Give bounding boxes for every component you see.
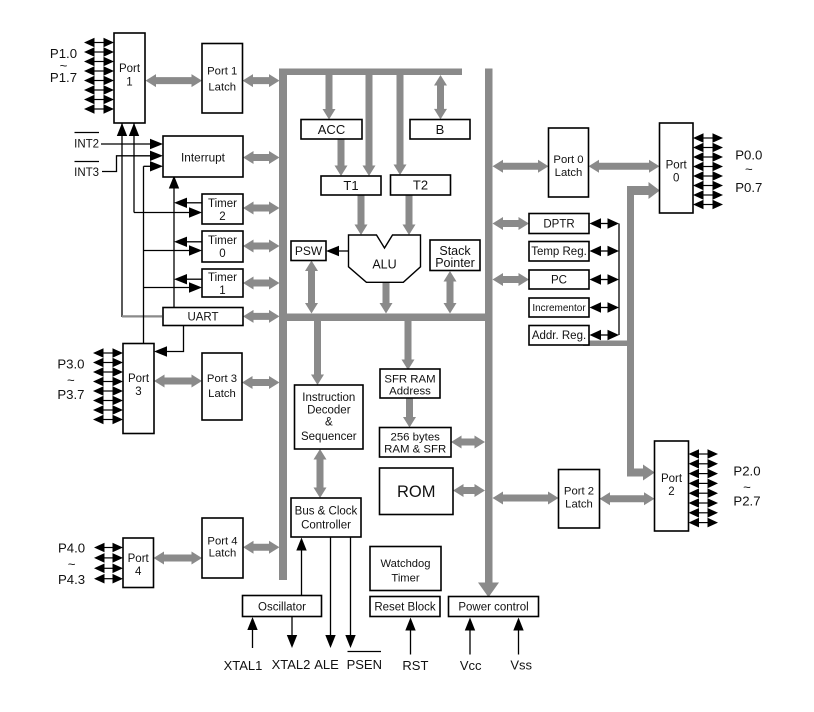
label P2.0 (733, 463, 760, 478)
box Power control (449, 597, 539, 617)
box Port 3 (123, 344, 154, 434)
box T1 (321, 176, 381, 195)
bus middle horizontal bar (279, 314, 493, 322)
arrow Port2Latch-Port2 (600, 492, 655, 505)
svg-text:ROM: ROM (397, 483, 436, 501)
wire RST input (405, 618, 415, 655)
box Timer 1 (202, 269, 243, 297)
box Port 2 (655, 441, 689, 531)
svg-text:ACC: ACC (318, 122, 345, 137)
box ROM (380, 468, 454, 515)
svg-text:Controller: Controller (301, 520, 351, 532)
wire INT2 to Interrupt (101, 139, 163, 149)
arrow T2 to ALU (403, 195, 416, 235)
svg-text:Decoder: Decoder (307, 404, 351, 416)
box Bus & Clock Controller (291, 498, 361, 537)
svg-text:Interrupt: Interrupt (181, 151, 226, 165)
svg-text:B: B (436, 122, 445, 137)
arrow ACC to T1 (335, 139, 348, 176)
svg-text:INT3: INT3 (74, 167, 99, 179)
wire Bus&Clock to ALE (325, 538, 335, 649)
box Instruction Decoder & Sequencer (295, 385, 364, 449)
label ALE (314, 657, 339, 672)
arrow RAM-bus (451, 436, 485, 449)
svg-text:Port: Port (128, 373, 150, 385)
svg-text:Port 0: Port 0 (553, 154, 583, 166)
arrow Port4Latch-bus (243, 541, 280, 554)
arrow bus to T1 (363, 75, 376, 176)
box Temp Reg. (529, 242, 589, 262)
arrow bus to T2 (394, 75, 407, 175)
label ~ (P3) (67, 372, 75, 387)
arrow bus to ACC (323, 75, 336, 120)
svg-text:Temp Reg.: Temp Reg. (531, 246, 587, 258)
arrow Port0Latch-Port0 (589, 160, 660, 173)
svg-text:Power control: Power control (458, 602, 528, 614)
wire Vcc input (465, 618, 475, 655)
wire INT3 to Interrupt (102, 151, 163, 172)
svg-text:Latch: Latch (209, 547, 237, 559)
svg-text:Address: Address (389, 386, 431, 398)
svg-text:T2: T2 (413, 178, 428, 193)
svg-text:ALU: ALU (372, 258, 396, 272)
svg-text:P2.7: P2.7 (733, 493, 760, 508)
ALU unit (349, 235, 421, 282)
box DPTR (529, 214, 589, 234)
label P4.0 (58, 541, 85, 556)
bus address vertical (right) (627, 186, 634, 477)
svg-text:Latch: Latch (555, 167, 583, 179)
arrow bus to Instruction Decoder (311, 321, 324, 385)
svg-text:P1.7: P1.7 (50, 70, 77, 85)
svg-text:~: ~ (68, 556, 76, 571)
box PC (529, 270, 589, 289)
svg-text:Port: Port (666, 160, 688, 172)
label P0.7 (735, 180, 762, 195)
label Vss (510, 658, 532, 673)
wire Vss input (513, 618, 523, 655)
wire XTAL1 input (247, 617, 257, 648)
arrow bus-PC (493, 273, 530, 286)
box T2 (391, 175, 451, 195)
svg-text:1: 1 (219, 285, 225, 297)
svg-text:~: ~ (745, 161, 753, 176)
svg-text:P3.7: P3.7 (57, 387, 84, 402)
svg-text:P3.0: P3.0 (57, 357, 84, 372)
svg-text:Latch: Latch (208, 82, 236, 94)
bus top horizontal bar (279, 69, 462, 76)
svg-text:Vss: Vss (510, 658, 532, 673)
arrow bus to SFR RAM Address (402, 321, 415, 370)
box SFR RAM Address (380, 369, 440, 398)
svg-text:0: 0 (673, 173, 679, 185)
bus address top elbow to Port 0 (627, 182, 660, 199)
box Port 1 (114, 33, 145, 123)
arrow ROM-bus (453, 484, 485, 497)
wire Bus&Clock to PSEN (345, 538, 355, 649)
arrow bus-B double (434, 75, 447, 119)
arrow bus-DPTR (493, 217, 530, 230)
svg-text:256 bytes: 256 bytes (390, 432, 440, 444)
svg-text:Watchdog: Watchdog (381, 558, 431, 570)
svg-text:3: 3 (135, 386, 141, 398)
wire register stack vertical (618, 224, 620, 336)
svg-text:Timer: Timer (391, 572, 419, 584)
box PSW (291, 241, 326, 261)
box Port 4 Latch (202, 518, 243, 578)
arrow Stack Pointer-bus double (444, 271, 457, 314)
box UART (163, 308, 243, 326)
pin arrows P4.0-P4.3 (94, 543, 123, 584)
svg-text:2: 2 (219, 211, 225, 223)
wire Port1 to UART (left riser) (117, 123, 162, 317)
svg-text:Pointer: Pointer (435, 256, 475, 270)
box B (410, 120, 470, 140)
box Port 1 Latch (202, 44, 243, 114)
arrow Port1-Port1Latch (146, 74, 203, 87)
pin arrows P1.0-P1.7 (84, 38, 114, 114)
svg-text:Port 3: Port 3 (207, 373, 237, 385)
box Port 2 Latch (559, 470, 600, 529)
svg-text:4: 4 (135, 566, 142, 578)
svg-text:Port 1: Port 1 (207, 66, 237, 78)
label Vcc (460, 658, 482, 673)
bus main right vertical (478, 69, 499, 598)
wire Oscillator to Bus&Clock (296, 538, 306, 596)
box ACC (301, 120, 362, 140)
pin arrows P2.0-P2.7 (689, 449, 719, 527)
svg-text:P2.0: P2.0 (733, 463, 760, 478)
wire UART to Port3 (154, 326, 184, 357)
box Port 0 (660, 123, 694, 213)
svg-text:Port: Port (661, 473, 683, 485)
box Stack Pointer (430, 240, 480, 271)
svg-text:Bus & Clock: Bus & Clock (295, 506, 358, 518)
svg-text:Port: Port (119, 63, 141, 75)
arrow Port3Latch-bus (242, 376, 280, 389)
svg-text:2: 2 (668, 486, 674, 498)
label ~ (P2) (743, 479, 751, 494)
svg-text:Incrementor: Incrementor (532, 303, 586, 314)
wire Incrementor register double arrow (590, 302, 620, 312)
bus address bottom elbow to Port 2 (627, 465, 655, 481)
box Port 3 Latch (202, 353, 242, 420)
label P0.0 (735, 148, 762, 163)
label RST (402, 658, 428, 673)
svg-text:SFR RAM: SFR RAM (384, 374, 435, 386)
svg-text:PSEN: PSEN (347, 657, 382, 672)
label P4.3 (58, 572, 85, 587)
box Interrupt (163, 136, 243, 177)
svg-text:Port 4: Port 4 (207, 535, 237, 547)
svg-text:PC: PC (551, 275, 567, 287)
bus main left vertical (279, 69, 287, 580)
svg-text:~: ~ (743, 479, 751, 494)
svg-text:Latch: Latch (565, 498, 593, 510)
box Watchdog Timer (370, 547, 441, 591)
svg-text:0: 0 (219, 248, 225, 260)
svg-text:Reset Block: Reset Block (374, 602, 436, 614)
svg-text:P4.3: P4.3 (58, 572, 85, 587)
svg-text:Addr. Reg.: Addr. Reg. (532, 330, 586, 342)
box Timer 0 (202, 231, 243, 262)
label P1.7 (50, 70, 77, 85)
label XTAL1 (224, 658, 263, 673)
svg-text:XTAL1: XTAL1 (224, 658, 263, 673)
arrow T1 to ALU (355, 195, 368, 235)
svg-text:P0.7: P0.7 (735, 180, 762, 195)
wire Addr. Reg. register double arrow (590, 330, 620, 340)
label P2.7 (733, 493, 760, 508)
svg-text:T1: T1 (343, 178, 358, 193)
label ~ (P1) (60, 58, 68, 73)
svg-text:XTAL2: XTAL2 (272, 657, 311, 672)
arrow bus-Port0Latch (493, 160, 549, 173)
wire XTAL2 output (287, 617, 297, 648)
svg-text:ALE: ALE (314, 657, 339, 672)
box 256 bytes RAM & SFR (380, 428, 452, 458)
box Oscillator (243, 596, 322, 617)
svg-text:INT2: INT2 (74, 139, 99, 151)
box Reset Block (370, 597, 440, 617)
arrow ALU to bus (380, 282, 393, 314)
label P3.7 (57, 387, 84, 402)
svg-text:Instruction: Instruction (302, 392, 355, 404)
label ~ (P0) (745, 161, 753, 176)
arrow Timer1-bus (243, 277, 280, 290)
wire DPTR register double arrow (590, 218, 620, 228)
svg-text:Timer: Timer (208, 198, 237, 210)
box Port 4 (123, 538, 154, 588)
wire ALU to PSW (326, 246, 349, 256)
svg-text:UART: UART (187, 312, 218, 324)
box Incrementor (529, 298, 589, 317)
svg-text:RST: RST (402, 658, 428, 673)
svg-text:Port: Port (128, 553, 150, 565)
svg-text:Port 2: Port 2 (564, 485, 594, 497)
svg-text:PSW: PSW (295, 244, 323, 258)
svg-text:DPTR: DPTR (543, 219, 574, 231)
wire Temp Reg. register double arrow (590, 246, 620, 256)
label PSEN with overline (347, 652, 382, 673)
arrow bus-Port2Latch (493, 492, 559, 505)
label P3.0 (57, 357, 84, 372)
svg-text:Timer: Timer (208, 235, 237, 247)
wire Interrupt to UART (timer tap line) (169, 176, 202, 308)
wire Port1 to Timer2 input (129, 123, 202, 218)
svg-text:Timer: Timer (208, 272, 237, 284)
svg-text:Latch: Latch (208, 388, 236, 400)
svg-text:Oscillator: Oscillator (258, 602, 306, 614)
svg-text:Vcc: Vcc (460, 658, 482, 673)
svg-text:P4.0: P4.0 (58, 541, 85, 556)
wire interrupt input riser to Port3 (144, 161, 203, 343)
box Timer 2 (202, 194, 243, 224)
arrow Port4-Port4Latch (154, 552, 203, 565)
arrow Instruction Decoder-Bus&Clock double (314, 449, 327, 498)
pin arrows P3.0-P3.7 (93, 348, 123, 424)
pin arrows P0.0-P0.7 (693, 133, 723, 209)
arrow PSW-bus double (305, 261, 318, 314)
arrow UART-bus (243, 310, 280, 323)
arrow SFR RAM Address to RAM (403, 398, 416, 428)
svg-text:&: & (325, 417, 333, 429)
arrow Timer0-bus (243, 240, 280, 253)
label ~ (P4) (68, 556, 76, 571)
arrow Port1Latch-bus (243, 74, 280, 87)
label INT2 with overline (74, 133, 99, 151)
box Port 0 Latch (549, 128, 589, 197)
bus address connector from Addr. Reg. (583, 341, 634, 347)
label INT3 with overline (74, 162, 99, 179)
box Addr. Reg. (529, 326, 589, 346)
label XTAL2 (272, 657, 311, 672)
label P1.0 (50, 46, 77, 61)
wire PC register double arrow (590, 274, 620, 284)
svg-text:Sequencer: Sequencer (301, 431, 357, 443)
svg-text:1: 1 (126, 77, 132, 89)
arrow Interrupt-bus (243, 151, 280, 164)
arrow Port3-Port3Latch (154, 375, 202, 388)
arrow Timer2-bus (243, 202, 280, 215)
svg-text:RAM & SFR: RAM & SFR (384, 443, 446, 455)
svg-text:~: ~ (67, 372, 75, 387)
